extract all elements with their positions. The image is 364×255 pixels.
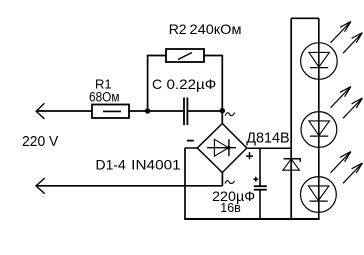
wire negative vertical down to bottom rail [184,148,186,219]
resistor R2 [166,49,204,62]
svg-text:C: C [152,76,162,92]
~ AC mark top [225,112,234,115]
plus mark at bridge right [246,152,253,159]
wire R2 loop right vertical [204,56,222,112]
wire top rail to LED chain [291,17,319,19]
svg-text:D1-4: D1-4 [96,157,127,173]
wire R1 to capacitor C [129,110,183,112]
minus mark at bridge left [187,140,194,142]
~ AC mark bottom [225,181,235,184]
wire bridge bottom vertex stub [221,173,223,186]
LED D7 diode symbol [308,186,329,201]
svg-text:R2: R2 [169,21,187,37]
node junction dot A [145,108,150,113]
node junction dot B [220,108,225,113]
LED D5 emission arrows [331,22,363,54]
wire R2 loop left vertical [148,56,166,112]
LED D6 diode symbol [309,121,330,136]
wire LED chain vertical [318,18,320,219]
wire zener branch vertical [290,18,292,219]
wire capacitor C2 branch lower [259,191,261,220]
wire AC line 2 from left arrow to bridge bottom stub [36,178,223,194]
svg-text:220 V: 220 V [22,134,59,150]
LED D6 emission arrows [331,87,363,119]
svg-text:0.22µФ: 0.22µФ [167,76,217,92]
LED D7 emission arrows [331,152,363,184]
plus mark at capacitor C2 [253,177,258,182]
wire C to node B [188,110,223,112]
svg-text:16в: 16в [220,200,240,215]
bridge diode symbol [207,139,236,156]
capacitor C 0.22uF [184,98,187,126]
capacitor C2 220uF plates [254,186,267,190]
LED D6 circle [301,112,337,148]
wire capacitor C2 branch upper [259,148,261,185]
wire node B to bridge top vertex [221,111,223,124]
bridge rectifier D1-4 diamond [197,124,247,173]
LED D7 circle [301,177,337,213]
svg-text:Д814В: Д814В [246,130,289,147]
svg-text:68Ом: 68Ом [89,90,120,105]
svg-text:240кОм: 240кОм [190,21,242,37]
svg-text:IN4001: IN4001 [131,157,181,173]
wire bridge left vertex to negative vertical [185,147,197,149]
wire bottom rail [184,218,319,220]
LED D5 circle [301,43,338,80]
wire AC line 1 from left arrow to R1 [36,103,92,119]
LED D5 diode symbol [309,52,330,67]
wire bridge right vertex to zener line [247,147,291,149]
resistor R1 [92,105,129,119]
zener diode Д814В symbol [283,159,300,170]
